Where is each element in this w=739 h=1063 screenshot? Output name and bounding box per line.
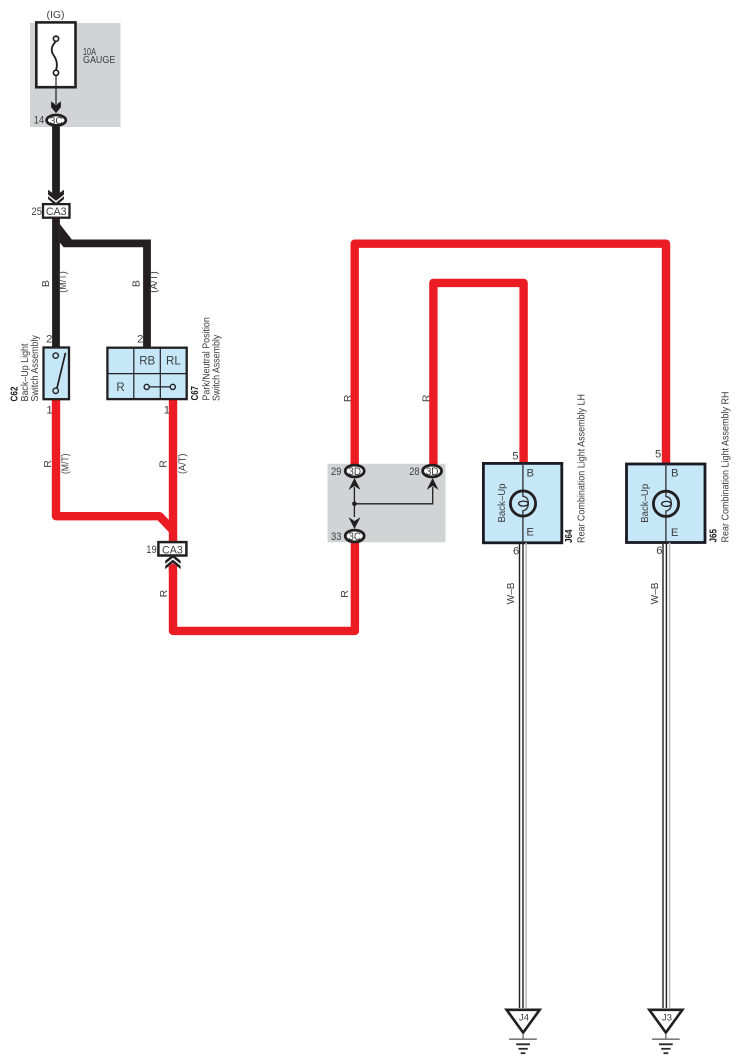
svg-text:R: R <box>158 589 170 597</box>
svg-text:6: 6 <box>513 546 519 558</box>
svg-text:R: R <box>420 394 432 402</box>
svg-text:Back–Up: Back–Up <box>497 483 508 522</box>
svg-text:RL: RL <box>166 355 181 367</box>
svg-text:B: B <box>40 280 52 287</box>
svg-text:RB: RB <box>139 355 155 367</box>
svg-text:Rear Combination Light Assembl: Rear Combination Light Assembly RH <box>721 392 732 543</box>
svg-text:J3: J3 <box>662 1013 672 1024</box>
svg-text:2: 2 <box>137 333 143 345</box>
svg-text:CA3: CA3 <box>162 544 183 556</box>
svg-text:33: 33 <box>331 531 341 543</box>
svg-text:R: R <box>116 382 124 394</box>
svg-text:R: R <box>158 460 170 468</box>
svg-text:J65: J65 <box>708 529 719 543</box>
svg-text:GAUGE: GAUGE <box>83 54 115 66</box>
svg-text:E: E <box>526 526 534 538</box>
svg-text:6: 6 <box>656 545 662 557</box>
svg-text:W–B: W–B <box>506 582 517 604</box>
svg-text:(IG): (IG) <box>46 9 64 21</box>
svg-text:Switch Assembly: Switch Assembly <box>212 334 223 401</box>
svg-text:C67: C67 <box>190 386 201 401</box>
svg-text:J4: J4 <box>519 1013 529 1024</box>
svg-text:B: B <box>130 280 142 287</box>
svg-text:Rear Combination Light Assembl: Rear Combination Light Assembly LH <box>577 394 588 543</box>
svg-text:R: R <box>342 394 354 402</box>
svg-text:29: 29 <box>331 466 341 478</box>
svg-text:(A/T): (A/T) <box>177 454 189 475</box>
svg-text:5: 5 <box>655 448 661 460</box>
svg-text:R: R <box>42 460 54 468</box>
svg-text:1: 1 <box>46 404 52 416</box>
svg-text:(M/T): (M/T) <box>57 271 69 293</box>
svg-text:C62: C62 <box>9 386 20 401</box>
svg-text:3C: 3C <box>348 531 361 543</box>
svg-text:B: B <box>527 467 535 479</box>
svg-text:(A/T): (A/T) <box>148 271 160 293</box>
svg-text:3D: 3D <box>426 466 439 478</box>
svg-text:25: 25 <box>32 206 42 218</box>
svg-text:3D: 3D <box>348 466 361 478</box>
svg-text:Switch Assembly: Switch Assembly <box>30 334 41 401</box>
svg-text:CA3: CA3 <box>46 206 67 218</box>
svg-text:2: 2 <box>46 333 52 345</box>
svg-text:E: E <box>671 527 679 539</box>
svg-text:28: 28 <box>409 466 419 478</box>
svg-text:J64: J64 <box>564 529 575 543</box>
svg-text:R: R <box>339 590 351 598</box>
svg-text:19: 19 <box>146 544 156 556</box>
svg-text:B: B <box>671 468 679 480</box>
svg-text:5: 5 <box>512 450 518 462</box>
svg-text:14: 14 <box>34 115 44 127</box>
svg-text:1: 1 <box>164 404 170 416</box>
svg-text:W–B: W–B <box>650 582 661 604</box>
svg-text:Back–Up: Back–Up <box>640 483 651 522</box>
svg-text:3C: 3C <box>50 116 63 127</box>
svg-text:(M/T): (M/T) <box>60 454 72 475</box>
